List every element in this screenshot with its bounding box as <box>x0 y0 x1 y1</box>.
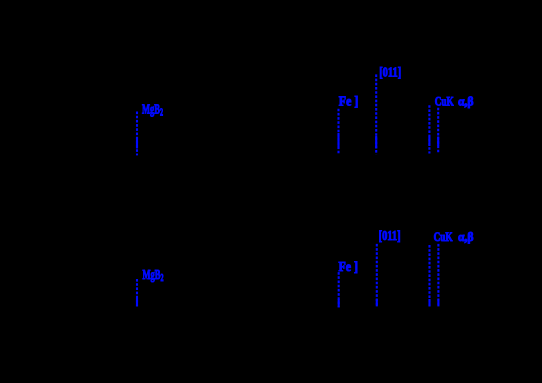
marker line CuK-b bottom <box>437 244 439 307</box>
long dash segment Fe bottom line <box>338 299 340 307</box>
svg-text:CuK: CuK <box>435 94 455 109</box>
long dash segment CuK-a bottom line <box>428 299 430 306</box>
marker line CuK-a bottom <box>428 245 430 306</box>
marker line CuK-a top <box>428 105 430 153</box>
svg-text:Fe ]: Fe ] <box>339 94 359 109</box>
long dash segment Fe top line <box>337 133 339 149</box>
marker line [011] bottom <box>376 244 378 307</box>
marker line MgB2 bottom <box>136 279 138 307</box>
svg-text:[011]: [011] <box>379 229 401 244</box>
long dash segment [011] top line <box>375 136 377 149</box>
marker line MgB2 top <box>136 112 138 156</box>
long dash segment CuK-b bottom line <box>437 299 439 306</box>
svg-text:CuK: CuK <box>434 229 454 244</box>
marker line Fe top <box>337 109 339 155</box>
long dash segment CuK-b top line <box>437 137 439 147</box>
svg-text:MgB2: MgB2 <box>142 103 163 119</box>
svg-text:α,β: α,β <box>458 94 474 108</box>
svg-text:α,β: α,β <box>458 230 474 244</box>
marker line [011] top <box>375 74 377 154</box>
marker line Fe bottom <box>338 272 340 307</box>
svg-text:MgB2: MgB2 <box>143 268 164 284</box>
long dash segment MgB2 bottom line <box>136 298 138 307</box>
svg-text:Fe ]: Fe ] <box>339 259 359 274</box>
long dash segment MgB2 top line <box>136 138 138 149</box>
svg-text:[011]: [011] <box>379 66 401 81</box>
long dash segment [011] bottom line <box>376 299 378 306</box>
marker line CuK-b top <box>437 108 439 154</box>
long dash segment CuK-a top line <box>428 137 430 147</box>
